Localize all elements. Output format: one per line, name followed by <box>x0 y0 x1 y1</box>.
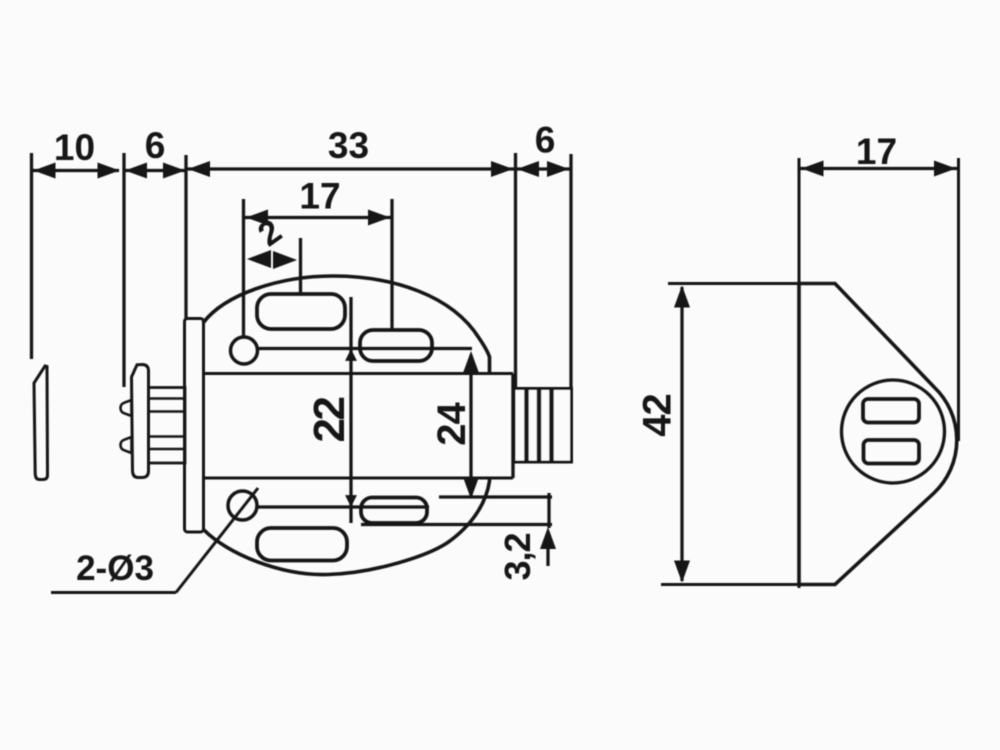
svg-text:2-Ø3: 2-Ø3 <box>76 549 154 588</box>
svg-text:6: 6 <box>535 120 556 161</box>
svg-text:3,2: 3,2 <box>497 533 538 580</box>
svg-text:42: 42 <box>636 394 680 437</box>
svg-text:33: 33 <box>328 125 369 166</box>
svg-text:17: 17 <box>299 176 340 217</box>
svg-text:24: 24 <box>430 402 474 446</box>
svg-text:6: 6 <box>145 125 166 166</box>
svg-text:10: 10 <box>54 127 95 168</box>
svg-text:17: 17 <box>856 131 897 172</box>
svg-text:22: 22 <box>305 398 354 443</box>
